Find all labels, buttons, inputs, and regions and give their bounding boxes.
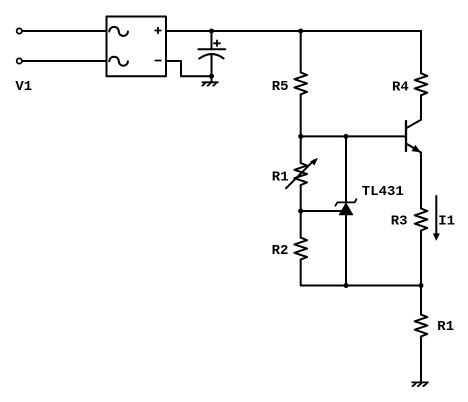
wire cap bottom	[211, 54, 213, 76]
svg-text:R4: R4	[392, 80, 409, 96]
rectifier minus mark	[155, 60, 161, 62]
transistor Q1 emitter arrowhead	[412, 145, 421, 153]
svg-text:TL431: TL431	[362, 184, 404, 200]
wire base rail	[301, 135, 406, 137]
wire R1 to ground	[420, 337, 422, 383]
wire R4 top feed	[420, 31, 422, 73]
capacitor C1 top plate	[198, 48, 225, 50]
terminal T1 (V1 +)	[17, 28, 22, 33]
wire top rail	[166, 30, 421, 32]
svg-text:R1: R1	[437, 319, 454, 335]
capacitor C1 plus mark	[214, 40, 220, 46]
wire R2 bottom	[301, 260, 421, 286]
wire R1 top feed	[300, 136, 302, 163]
wire R2 top feed	[300, 211, 302, 238]
resistor R5	[294, 72, 307, 94]
svg-text:R3: R3	[391, 213, 408, 229]
resistor R4	[415, 73, 428, 95]
current arrow I1 head	[433, 233, 440, 241]
wire minus output	[166, 61, 212, 76]
svg-text:R5: R5	[272, 79, 289, 95]
junction dot top R5	[298, 29, 303, 34]
transistor Q1 emitter	[407, 144, 421, 153]
current arrow I1 shaft	[435, 196, 437, 235]
wire R5 top feed	[300, 31, 302, 72]
svg-text:R1: R1	[272, 170, 289, 186]
rectifier plus mark	[155, 28, 161, 34]
wire R3 bottom	[420, 231, 422, 286]
resistor R1 (load)	[415, 315, 428, 337]
TL431 U1 anode triangle	[339, 203, 352, 215]
wire R5 bottom	[300, 94, 302, 136]
ground GND1	[202, 82, 218, 85]
junction dot bottom R3	[419, 283, 424, 288]
wire emitter to R3	[420, 153, 422, 209]
transistor Q1 base bar	[405, 121, 407, 151]
ground GND2	[412, 382, 428, 386]
svg-text:R2: R2	[272, 243, 289, 259]
variable resistor arrowhead	[310, 158, 318, 166]
junction dot top cap	[209, 29, 214, 34]
transistor Q1 collector	[407, 120, 421, 128]
junction dot ref node	[298, 208, 303, 213]
junction dot mid TL431	[344, 134, 349, 139]
TL431 U1 cathode bar	[335, 199, 356, 206]
terminal T2 (V1 -)	[17, 58, 22, 63]
rectifier bridge body	[107, 17, 167, 77]
junction dot mid R5	[298, 134, 303, 139]
resistor R2	[294, 238, 307, 260]
junction dot cap ground	[209, 74, 214, 79]
wire R4 bottom to collector	[420, 95, 422, 119]
wire cap top	[211, 31, 213, 49]
ground GND1 stub	[211, 76, 213, 82]
wire TL431 anode	[345, 215, 347, 286]
rectifier AC symbol bottom	[109, 57, 128, 66]
variable resistor arrow shaft	[286, 160, 314, 188]
junction dot bottom TL431	[344, 283, 349, 288]
capacitor C1 bottom plate	[199, 54, 223, 59]
wire R1 bottom	[300, 185, 302, 211]
wire V1 bottom lead	[23, 60, 107, 62]
wire R1 bottom feed	[420, 286, 422, 315]
wire ref to TL431	[301, 210, 343, 212]
svg-text:V1: V1	[15, 79, 32, 95]
svg-text:I1: I1	[438, 214, 455, 230]
wire V1 top lead	[23, 30, 107, 32]
rectifier AC symbol top	[109, 27, 128, 36]
resistor R3	[415, 209, 428, 231]
resistor R1 variable	[294, 163, 307, 185]
wire TL431 cathode	[345, 136, 347, 202]
